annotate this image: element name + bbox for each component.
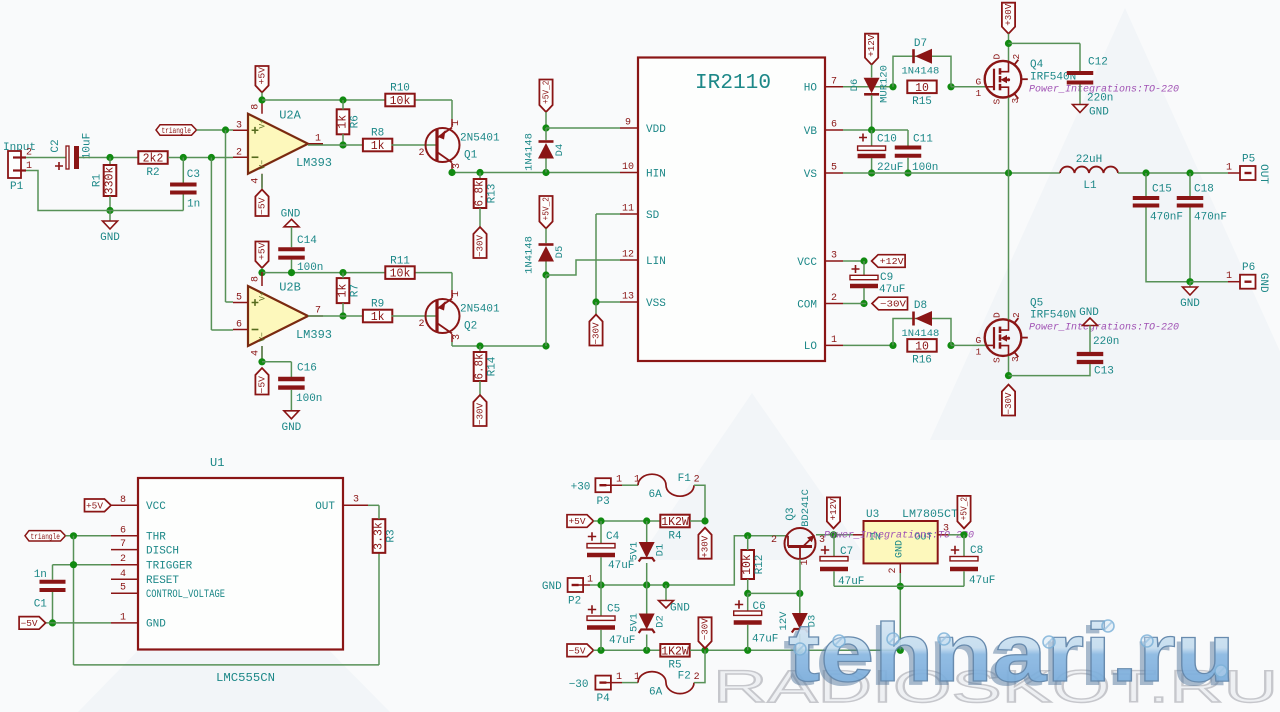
- svg-text:THR: THR: [146, 532, 166, 544]
- svg-text:−30V: −30V: [880, 300, 907, 310]
- svg-text:R11: R11: [390, 255, 410, 267]
- svg-text:C5: C5: [607, 604, 620, 616]
- svg-text:D6: D6: [849, 79, 861, 92]
- svg-text:9: 9: [625, 118, 631, 129]
- svg-text:−30V: −30V: [701, 618, 711, 641]
- svg-text:tehnari.ru: tehnari.ru: [788, 606, 1235, 699]
- svg-text:2: 2: [771, 535, 777, 546]
- svg-text:22uH: 22uH: [1076, 154, 1102, 166]
- svg-text:LO: LO: [804, 341, 818, 353]
- svg-text:2N5401: 2N5401: [460, 304, 500, 316]
- svg-text:LM7805CT: LM7805CT: [902, 509, 958, 521]
- svg-text:R3: R3: [386, 529, 398, 542]
- svg-text:P6: P6: [1242, 262, 1255, 274]
- svg-text:LIN: LIN: [646, 256, 666, 268]
- svg-text:S: S: [992, 99, 1003, 105]
- svg-text:3: 3: [1010, 356, 1021, 362]
- svg-text:+5V: +5V: [569, 517, 587, 527]
- svg-text:BD241C: BD241C: [800, 489, 812, 527]
- svg-text:5: 5: [236, 293, 242, 304]
- svg-text:1: 1: [1226, 271, 1232, 282]
- svg-text:−5V: −5V: [258, 197, 268, 215]
- svg-text:C1: C1: [34, 599, 48, 611]
- svg-text:C11: C11: [913, 134, 933, 146]
- svg-text:8: 8: [120, 495, 126, 506]
- svg-text:1N4148: 1N4148: [524, 236, 536, 274]
- svg-text:3: 3: [452, 163, 463, 169]
- svg-text:C8: C8: [970, 545, 983, 557]
- svg-text:+5V_2: +5V_2: [960, 497, 970, 521]
- svg-text:GND: GND: [146, 619, 166, 631]
- svg-text:1n: 1n: [34, 569, 47, 581]
- svg-text:Q4: Q4: [1030, 59, 1044, 71]
- svg-text:13: 13: [622, 292, 634, 303]
- svg-text:Q1: Q1: [464, 150, 478, 162]
- svg-text:F1: F1: [678, 473, 692, 485]
- svg-text:R4: R4: [668, 530, 682, 542]
- svg-text:GND: GND: [1089, 107, 1109, 119]
- svg-text:VCC: VCC: [146, 501, 166, 513]
- svg-text:OUT: OUT: [1257, 164, 1269, 184]
- svg-text:−5V: −5V: [569, 647, 587, 657]
- svg-text:2: 2: [120, 554, 126, 565]
- svg-text:+12V: +12V: [880, 257, 905, 267]
- svg-text:+12V: +12V: [867, 34, 877, 57]
- svg-text:D: D: [992, 312, 1003, 318]
- svg-text:R13: R13: [487, 184, 499, 204]
- svg-text:2: 2: [831, 293, 837, 304]
- svg-text:1: 1: [1226, 163, 1232, 174]
- svg-text:1N4148: 1N4148: [524, 133, 536, 171]
- svg-text:+5V: +5V: [258, 242, 268, 260]
- svg-text:LMC555CN: LMC555CN: [216, 671, 275, 685]
- svg-text:6A: 6A: [649, 489, 663, 501]
- svg-text:1K2W: 1K2W: [661, 516, 689, 529]
- svg-text:10: 10: [915, 82, 929, 95]
- svg-text:10k: 10k: [390, 268, 411, 281]
- svg-text:L1: L1: [1083, 180, 1097, 192]
- svg-text:+12V: +12V: [829, 498, 839, 521]
- svg-text:4: 4: [251, 350, 262, 356]
- svg-text:1k: 1k: [371, 311, 385, 324]
- svg-text:GND: GND: [895, 540, 906, 558]
- svg-text:1: 1: [800, 559, 811, 565]
- svg-text:3: 3: [1010, 98, 1021, 104]
- svg-text:C3: C3: [187, 169, 200, 181]
- svg-text:1K2W: 1K2W: [661, 645, 689, 658]
- svg-text:C18: C18: [1194, 184, 1214, 196]
- svg-text:10k: 10k: [390, 95, 411, 108]
- svg-text:C13: C13: [1094, 366, 1114, 378]
- svg-text:R2: R2: [146, 167, 159, 179]
- svg-text:1: 1: [831, 335, 837, 346]
- svg-text:+30V: +30V: [701, 535, 711, 558]
- svg-text:GND: GND: [670, 603, 690, 615]
- svg-text:3: 3: [236, 120, 242, 131]
- svg-text:1: 1: [315, 133, 321, 144]
- svg-text:U1: U1: [210, 456, 224, 470]
- svg-text:D: D: [992, 54, 1003, 60]
- svg-text:6.8k: 6.8k: [474, 180, 487, 206]
- svg-text:1k: 1k: [337, 115, 350, 129]
- svg-text:S: S: [992, 357, 1003, 363]
- svg-text:4: 4: [120, 569, 126, 580]
- svg-text:C12: C12: [1088, 57, 1108, 69]
- svg-text:C16: C16: [297, 363, 317, 375]
- svg-text:1N4148: 1N4148: [902, 328, 940, 340]
- svg-text:6: 6: [236, 320, 242, 331]
- svg-text:R1: R1: [92, 174, 104, 188]
- svg-text:2: 2: [1011, 54, 1022, 60]
- svg-text:GND: GND: [542, 581, 562, 593]
- svg-text:C7: C7: [840, 546, 853, 558]
- svg-text:3: 3: [831, 251, 837, 262]
- svg-text:D7: D7: [914, 38, 927, 50]
- svg-text:V−: V−: [259, 332, 268, 342]
- svg-text:HIN: HIN: [646, 168, 666, 180]
- svg-text:8: 8: [251, 276, 262, 282]
- svg-text:4: 4: [251, 178, 262, 184]
- svg-text:G: G: [975, 76, 981, 87]
- svg-text:D4: D4: [554, 144, 566, 157]
- svg-text:V−: V−: [259, 160, 268, 170]
- svg-text:+30V: +30V: [1004, 3, 1014, 26]
- svg-text:VSS: VSS: [646, 298, 666, 310]
- svg-text:−30V: −30V: [476, 234, 486, 257]
- svg-text:2k2: 2k2: [143, 153, 164, 166]
- svg-text:6: 6: [120, 525, 126, 536]
- svg-text:11: 11: [622, 204, 634, 215]
- svg-text:12: 12: [622, 250, 634, 261]
- svg-text:+5V: +5V: [258, 66, 268, 84]
- svg-text:V+: V+: [259, 291, 268, 301]
- svg-text:10: 10: [915, 340, 929, 353]
- svg-text:D8: D8: [914, 300, 927, 312]
- svg-text:5V1: 5V1: [629, 542, 641, 561]
- svg-text:330k: 330k: [104, 167, 117, 195]
- svg-text:Power_Integrations:TO-220: Power_Integrations:TO-220: [1029, 322, 1179, 334]
- svg-text:MUR120: MUR120: [879, 65, 891, 103]
- svg-text:220n: 220n: [1093, 336, 1119, 348]
- svg-text:7: 7: [315, 306, 321, 317]
- svg-text:GND: GND: [281, 422, 301, 434]
- svg-text:Q5: Q5: [1030, 298, 1043, 310]
- svg-text:C6: C6: [753, 601, 766, 613]
- svg-text:+5V_2: +5V_2: [542, 81, 552, 105]
- svg-text:47uF: 47uF: [608, 560, 634, 572]
- svg-text:470nF: 470nF: [1194, 212, 1227, 224]
- svg-text:DISCH: DISCH: [146, 545, 179, 557]
- svg-text:C9: C9: [880, 272, 893, 284]
- svg-text:TRIGGER: TRIGGER: [146, 561, 193, 573]
- svg-text:GND: GND: [1180, 298, 1200, 310]
- svg-text:47uF: 47uF: [969, 575, 995, 587]
- svg-text:LM393: LM393: [296, 328, 332, 342]
- svg-text:100n: 100n: [912, 162, 938, 174]
- svg-text:VS: VS: [804, 169, 818, 181]
- svg-text:3: 3: [452, 334, 463, 340]
- svg-text:100n: 100n: [296, 393, 322, 405]
- svg-text:R7: R7: [350, 284, 362, 297]
- svg-text:5: 5: [120, 583, 126, 594]
- svg-text:+30: +30: [571, 482, 591, 494]
- svg-text:5V1: 5V1: [629, 613, 641, 632]
- svg-text:C10: C10: [877, 134, 897, 146]
- svg-text:SD: SD: [646, 210, 660, 222]
- svg-text:R12: R12: [754, 555, 766, 575]
- svg-text:1k: 1k: [371, 140, 385, 153]
- svg-text:GND: GND: [100, 232, 120, 244]
- svg-text:GND: GND: [1257, 273, 1269, 293]
- svg-text:G: G: [975, 335, 981, 346]
- svg-text:2: 2: [236, 147, 242, 158]
- svg-text:F2: F2: [678, 671, 691, 683]
- svg-text:P4: P4: [597, 693, 611, 705]
- svg-text:C15: C15: [1152, 184, 1172, 196]
- svg-text:1: 1: [975, 88, 981, 99]
- svg-text:U2A: U2A: [279, 108, 301, 122]
- svg-text:−30V: −30V: [1004, 392, 1014, 415]
- svg-text:1: 1: [120, 612, 126, 623]
- svg-text:P3: P3: [597, 496, 610, 508]
- svg-text:VDD: VDD: [646, 124, 666, 136]
- svg-text:22uF: 22uF: [877, 162, 903, 174]
- svg-text:−30: −30: [569, 679, 589, 691]
- svg-text:2: 2: [1011, 312, 1022, 318]
- svg-text:6.8k: 6.8k: [474, 353, 487, 379]
- svg-text:D2: D2: [655, 615, 667, 628]
- svg-text:U2B: U2B: [279, 281, 301, 295]
- svg-text:VB: VB: [804, 126, 818, 138]
- svg-text:IRF540N: IRF540N: [1030, 310, 1076, 322]
- svg-text:10uF: 10uF: [82, 133, 94, 159]
- svg-text:GND: GND: [281, 208, 301, 220]
- svg-text:D1: D1: [655, 544, 667, 557]
- svg-text:C14: C14: [297, 235, 317, 247]
- svg-text:VCC: VCC: [797, 257, 817, 269]
- svg-text:1: 1: [616, 672, 622, 683]
- svg-text:P1: P1: [10, 181, 24, 193]
- svg-text:triangle: triangle: [162, 126, 192, 136]
- svg-text:47uF: 47uF: [752, 634, 778, 646]
- svg-text:220n: 220n: [1087, 93, 1113, 105]
- svg-text:Q2: Q2: [464, 321, 477, 333]
- svg-text:7: 7: [831, 76, 837, 87]
- svg-text:8: 8: [251, 104, 262, 110]
- svg-text:10k: 10k: [741, 554, 754, 575]
- svg-text:C2: C2: [50, 139, 62, 152]
- svg-text:2: 2: [694, 475, 700, 486]
- svg-text:2: 2: [694, 672, 700, 683]
- svg-text:R15: R15: [912, 96, 932, 108]
- svg-text:−30V: −30V: [476, 402, 486, 425]
- svg-text:47uF: 47uF: [879, 284, 905, 296]
- svg-text:HO: HO: [804, 83, 818, 95]
- svg-text:P2: P2: [568, 596, 581, 608]
- svg-text:1: 1: [975, 346, 981, 357]
- svg-text:1k: 1k: [337, 284, 350, 298]
- svg-text:2: 2: [418, 319, 424, 330]
- svg-text:7: 7: [120, 539, 126, 550]
- svg-text:R8: R8: [371, 128, 384, 140]
- svg-text:COM: COM: [797, 299, 817, 311]
- svg-text:47uF: 47uF: [609, 635, 635, 647]
- svg-text:2N5401: 2N5401: [460, 133, 500, 145]
- svg-text:5: 5: [831, 163, 837, 174]
- svg-text:C4: C4: [606, 531, 620, 543]
- svg-text:3: 3: [353, 495, 359, 506]
- svg-text:OUT: OUT: [315, 501, 335, 513]
- svg-text:470nF: 470nF: [1150, 212, 1183, 224]
- svg-text:R6: R6: [350, 115, 362, 128]
- svg-text:IR2110: IR2110: [695, 72, 771, 95]
- svg-text:6A: 6A: [649, 687, 663, 699]
- svg-text:Q3: Q3: [785, 507, 797, 520]
- svg-text:U3: U3: [866, 509, 879, 521]
- svg-text:1N4148: 1N4148: [902, 66, 940, 78]
- svg-text:+5V_2: +5V_2: [542, 197, 552, 221]
- svg-text:−5V: −5V: [258, 375, 268, 393]
- svg-text:R10: R10: [390, 83, 410, 95]
- svg-text:+5V: +5V: [86, 502, 104, 512]
- svg-text:6: 6: [831, 120, 837, 131]
- svg-text:V+: V+: [259, 119, 268, 129]
- svg-text:P5: P5: [1242, 154, 1255, 166]
- svg-text:2: 2: [888, 567, 899, 573]
- svg-text:10: 10: [622, 162, 634, 173]
- svg-text:R14: R14: [487, 356, 499, 376]
- svg-text:RESET: RESET: [146, 575, 179, 587]
- svg-text:triangle: triangle: [31, 532, 61, 542]
- svg-text:−30V: −30V: [592, 322, 602, 345]
- svg-text:1: 1: [451, 120, 462, 126]
- svg-text:1: 1: [451, 291, 462, 297]
- svg-text:1: 1: [587, 575, 593, 586]
- svg-text:1: 1: [616, 475, 622, 486]
- svg-text:−5V: −5V: [21, 619, 39, 629]
- svg-text:3.3k: 3.3k: [373, 522, 386, 550]
- svg-text:R16: R16: [912, 355, 932, 367]
- svg-text:D5: D5: [554, 246, 566, 259]
- svg-text:GND: GND: [1079, 307, 1099, 319]
- svg-text:CONTROL_VOLTAGE: CONTROL_VOLTAGE: [146, 589, 225, 601]
- svg-text:1n: 1n: [187, 199, 200, 211]
- svg-text:R9: R9: [371, 299, 384, 311]
- svg-text:LM393: LM393: [296, 156, 332, 170]
- svg-text:2: 2: [418, 148, 424, 159]
